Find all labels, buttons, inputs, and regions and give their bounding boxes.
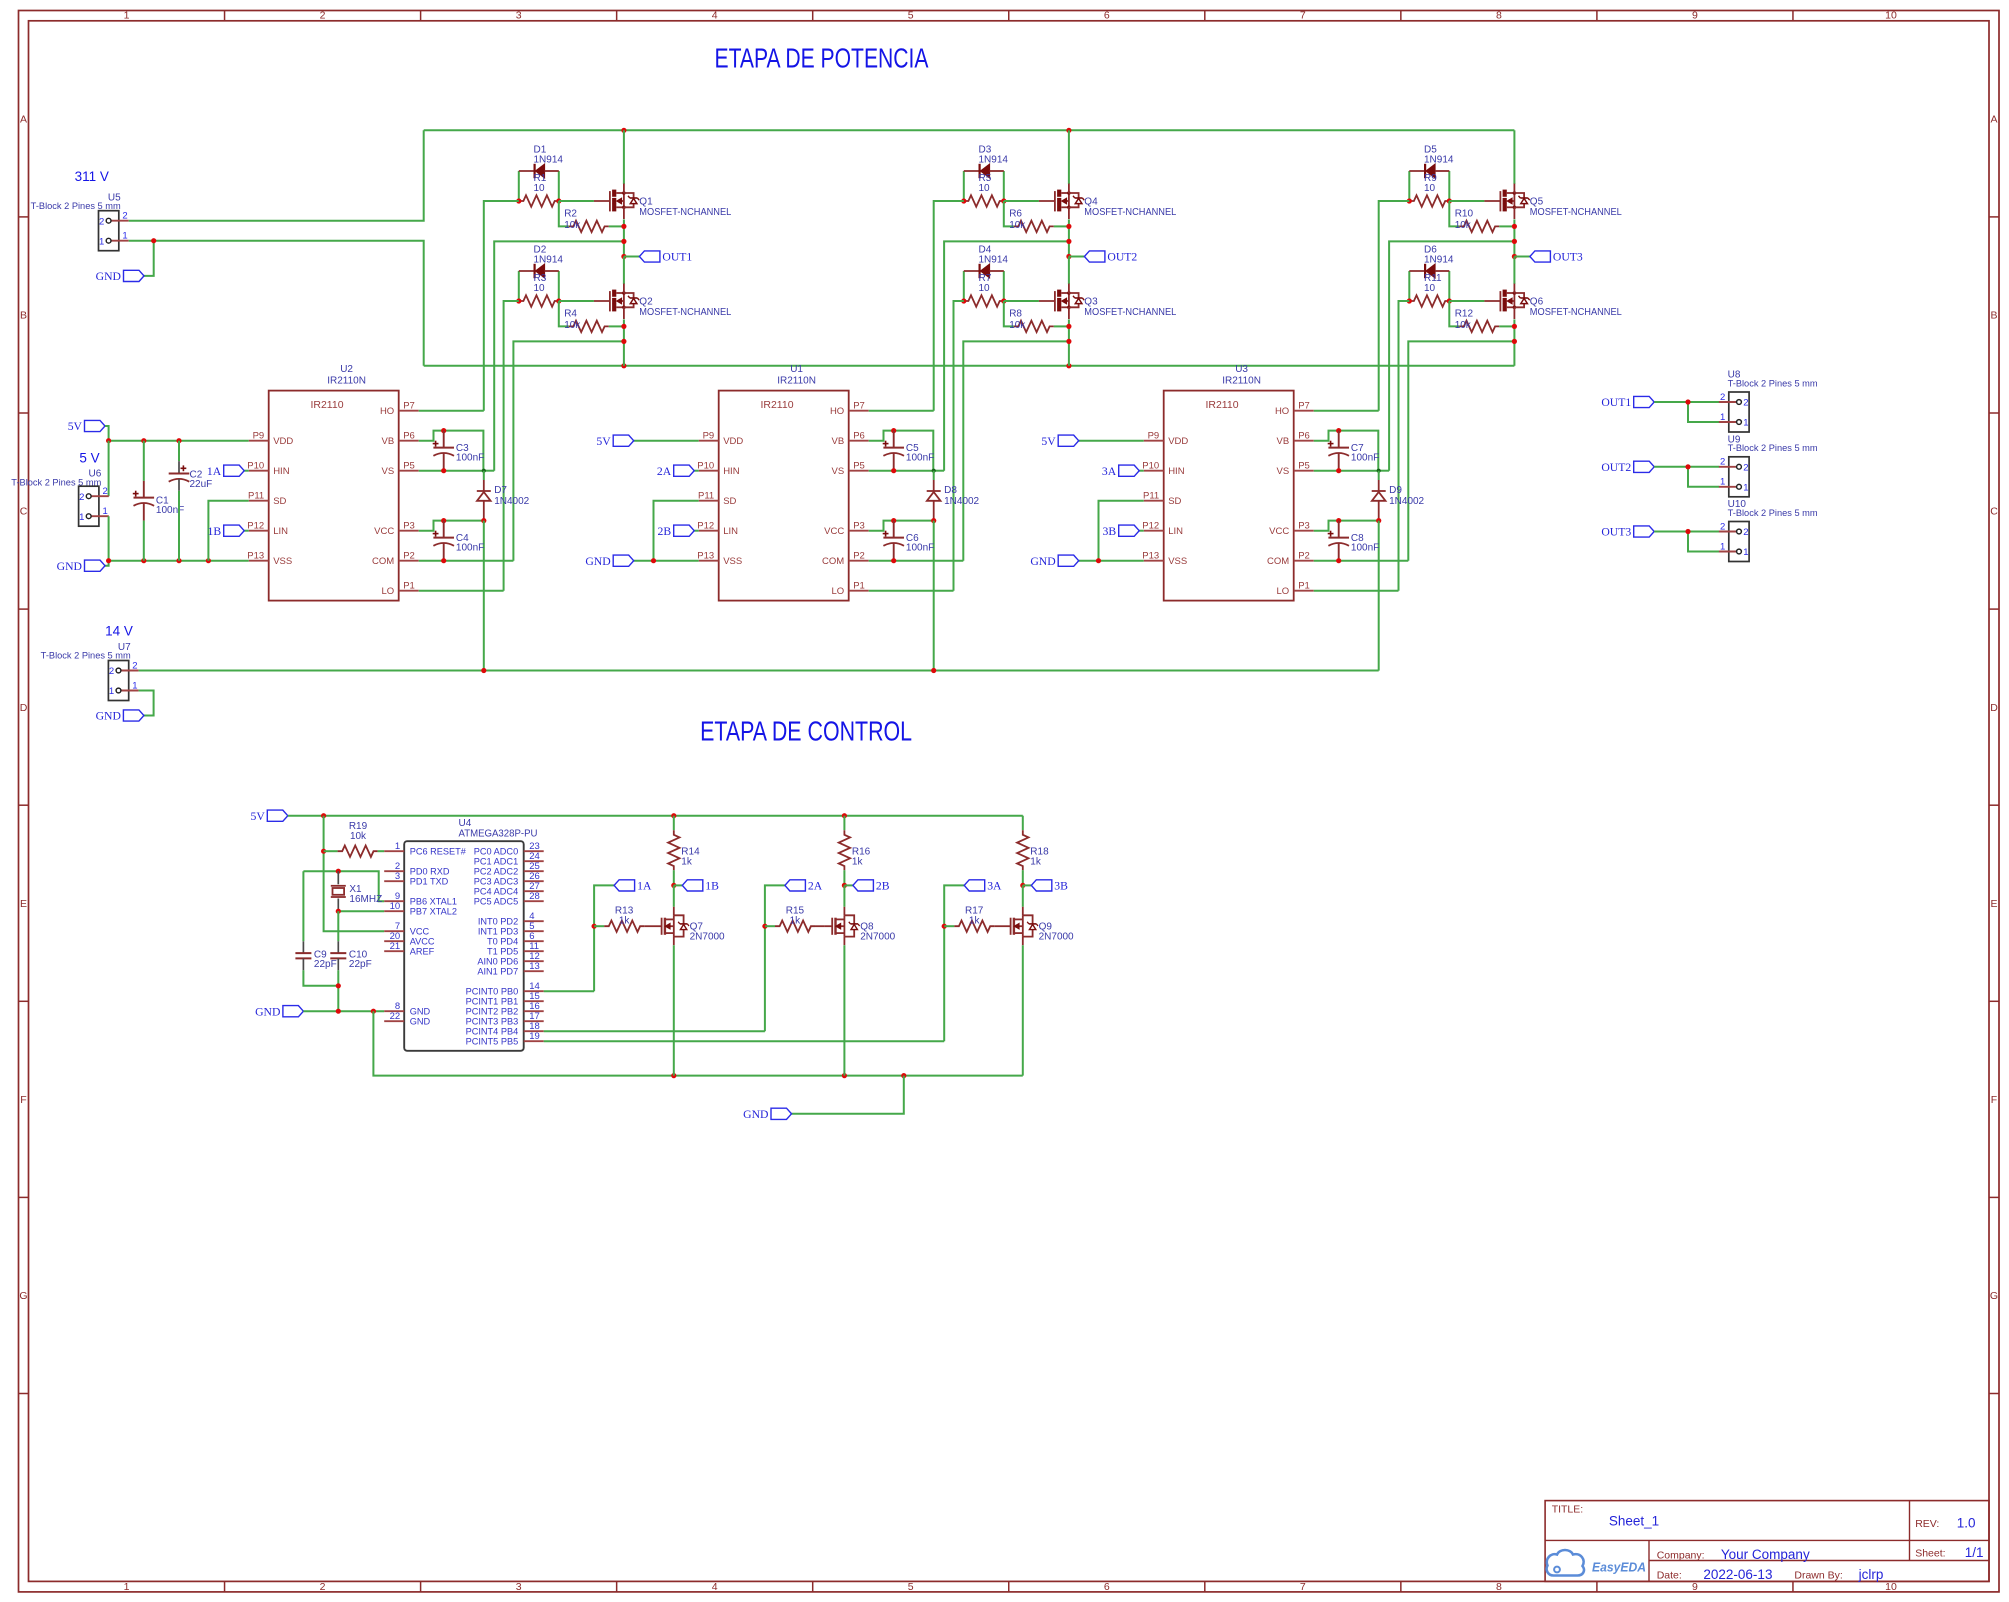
svg-text:2: 2 — [1743, 398, 1748, 409]
svg-text:Company:: Company: — [1657, 1549, 1705, 1561]
svg-text:OUT1: OUT1 — [662, 251, 692, 264]
svg-text:PCINT5 PB5: PCINT5 PB5 — [466, 1037, 519, 1047]
svg-text:IR2110: IR2110 — [1205, 399, 1238, 411]
IC U2 IR2110N — [247, 364, 418, 600]
svg-text:HIN: HIN — [723, 466, 740, 477]
net flag OUT2 (output) — [1601, 461, 1654, 474]
svg-text:A: A — [1990, 113, 1997, 125]
junction R12 right — [1512, 324, 1517, 329]
svg-text:IR2110N: IR2110N — [1222, 376, 1261, 387]
wire U3 VCC to C8 — [1314, 521, 1339, 531]
junction VS / bootstrap diode — [482, 469, 486, 473]
junction C5 bottom — [891, 468, 896, 473]
svg-text:VDD: VDD — [1168, 436, 1188, 447]
junction COM wire — [621, 339, 626, 344]
wire 14V rail — [139, 670, 1379, 672]
wire U6 pin1 to GND — [105, 516, 109, 566]
wire U2 VB to C3 — [419, 431, 444, 441]
svg-text:LIN: LIN — [1168, 526, 1183, 537]
svg-text:GND: GND — [57, 560, 82, 573]
transistor Q9 2N7000 — [1003, 907, 1075, 945]
junction C8 bottom — [1336, 558, 1341, 563]
resistor R19 10k — [324, 821, 385, 857]
svg-text:B: B — [20, 310, 27, 322]
svg-text:1: 1 — [79, 512, 84, 523]
svg-text:2: 2 — [122, 211, 127, 222]
svg-text:2: 2 — [79, 492, 84, 503]
title block — [1545, 1501, 1989, 1582]
transistor Q5 MOSFET-NCHANNEL — [1484, 184, 1622, 219]
resistor R7 10 — [964, 273, 1004, 307]
ground flag GND (control left) — [255, 1005, 303, 1018]
diode D7 1N4002 bootstrap — [477, 471, 530, 521]
junction SD/VSS (U3) — [1096, 558, 1101, 563]
svg-text:14 V: 14 V — [105, 623, 133, 638]
svg-text:GND: GND — [410, 1017, 431, 1027]
wire U1 LO row — [869, 590, 954, 592]
junction R1 left — [516, 198, 521, 203]
junction C1 bottom — [141, 558, 146, 563]
net flag 2A — [765, 880, 823, 1032]
svg-text:100nF: 100nF — [906, 453, 934, 464]
wire Q1 source to R2 — [623, 219, 625, 256]
svg-text:5 V: 5 V — [79, 450, 99, 465]
svg-text:22uF: 22uF — [190, 479, 213, 490]
svg-text:INT0 PD2: INT0 PD2 — [478, 917, 518, 927]
diode D8 1N4002 bootstrap — [927, 471, 980, 521]
diode D5 1N914 — [1409, 145, 1454, 179]
junction C7 bottom — [1336, 468, 1341, 473]
wire VCC down to 14V rail — [483, 521, 485, 671]
svg-text:P7: P7 — [853, 400, 865, 411]
svg-text:1N914: 1N914 — [1424, 155, 1454, 166]
svg-text:OUT3: OUT3 — [1601, 526, 1631, 539]
junction C7 top — [1336, 428, 1341, 433]
svg-text:1N4002: 1N4002 — [944, 496, 979, 507]
IC U1 IR2110N — [697, 364, 868, 600]
svg-text:LIN: LIN — [273, 526, 288, 537]
ground flag GND (U2 cluster) — [57, 560, 105, 573]
svg-text:LIN: LIN — [723, 526, 738, 537]
wire U1 VCC to C6 — [869, 521, 894, 531]
transistor Q4 MOSFET-NCHANNEL — [1039, 184, 1177, 219]
junction R7 right — [1001, 298, 1006, 303]
svg-text:1N914: 1N914 — [979, 255, 1009, 266]
IC U4 ATMEGA328P-PU — [384, 818, 544, 1051]
svg-text:10k: 10k — [1009, 320, 1026, 331]
svg-text:C: C — [1990, 506, 1998, 518]
junction VCC / diode anode — [1376, 518, 1381, 523]
wire U1 COM row — [869, 560, 964, 562]
wire Q2 drain — [623, 257, 625, 285]
svg-text:INT1 PD3: INT1 PD3 — [478, 927, 518, 937]
junction C8 top — [1336, 518, 1341, 523]
wire COM return — [963, 341, 1069, 560]
svg-text:ETAPA DE CONTROL: ETAPA DE CONTROL — [700, 716, 912, 747]
svg-text:OUT1: OUT1 — [1601, 396, 1631, 409]
svg-text:GND: GND — [255, 1005, 280, 1018]
svg-text:VDD: VDD — [723, 436, 743, 447]
svg-text:1: 1 — [1720, 412, 1725, 423]
connector U5 T-Block 2 Pines 5 mm — [31, 192, 129, 250]
net flag 1A to HIN — [207, 465, 249, 478]
wire Q6 source to rail — [1513, 319, 1515, 365]
capacitor C4 100nF — [433, 521, 485, 561]
wire D6 right vertical — [1448, 271, 1450, 301]
wire D3 right vertical — [1003, 171, 1005, 201]
svg-text:1N914: 1N914 — [1424, 255, 1454, 266]
junction SD corner (U2) — [206, 558, 211, 563]
svg-text:100nF: 100nF — [1351, 453, 1379, 464]
svg-text:T-Block 2 Pines 5 mm: T-Block 2 Pines 5 mm — [41, 651, 131, 661]
svg-text:E: E — [1990, 898, 1997, 910]
junction OUT2 — [1685, 464, 1690, 469]
svg-text:U3: U3 — [1235, 364, 1248, 375]
junction R11 left — [1407, 298, 1412, 303]
wire R4 branch — [559, 301, 624, 326]
svg-text:VSS: VSS — [723, 556, 742, 567]
net flag OUT3 (output) — [1601, 526, 1654, 539]
wire GND row to pin8 — [303, 1010, 384, 1012]
junction GND rail / GND flag stub — [901, 1073, 906, 1078]
wire R8 branch — [1004, 301, 1069, 326]
svg-text:100nF: 100nF — [906, 543, 934, 554]
junction GND rail / Q7 — [671, 1073, 676, 1078]
capacitor C9 22pF — [295, 871, 338, 986]
svg-text:SD: SD — [723, 496, 736, 507]
svg-text:PC5 ADC5: PC5 ADC5 — [474, 897, 518, 907]
svg-text:P3: P3 — [403, 520, 415, 531]
svg-text:T-Block 2 Pines 5 mm: T-Block 2 Pines 5 mm — [1728, 508, 1818, 518]
svg-text:10k: 10k — [1455, 220, 1472, 231]
junction R15 left — [762, 924, 767, 929]
junction VS / bootstrap diode — [1377, 469, 1381, 473]
junction bottom rail / section2 — [1066, 363, 1071, 368]
svg-text:Date:: Date: — [1657, 1569, 1682, 1581]
wire source bottom rail — [424, 365, 1515, 367]
svg-text:C: C — [20, 506, 28, 518]
wire OUT1 to U8 pin2 — [1654, 401, 1719, 403]
svg-text:2N7000: 2N7000 — [1039, 932, 1074, 943]
svg-text:R8: R8 — [1009, 309, 1022, 320]
wire U2 COM row — [419, 560, 514, 562]
junction VS / bootstrap diode — [932, 469, 936, 473]
svg-text:1: 1 — [1743, 547, 1748, 558]
connector U9 T-Block 2 Pines 5 mm — [1719, 435, 1818, 497]
wire D1 left vertical — [518, 171, 520, 201]
junction R19 left — [321, 849, 326, 854]
svg-text:VDD: VDD — [273, 436, 293, 447]
svg-text:B: B — [1990, 310, 1997, 322]
svg-text:P11: P11 — [248, 490, 264, 501]
wire R5 to Q4 gate — [1004, 200, 1039, 202]
svg-text:7: 7 — [1300, 1581, 1306, 1593]
svg-text:PC4 ADC4: PC4 ADC4 — [474, 887, 518, 897]
svg-text:1: 1 — [1720, 477, 1725, 488]
wire Q9 source to GND rail — [1022, 945, 1024, 1075]
svg-text:PC3 ADC3: PC3 ADC3 — [474, 877, 518, 887]
wire COM return — [1408, 341, 1514, 560]
resistor R12 10k — [1455, 309, 1500, 333]
wire SD to VSS (U3) — [1099, 501, 1144, 561]
svg-text:P11: P11 — [1143, 490, 1159, 501]
svg-text:2: 2 — [132, 660, 137, 671]
wire HO riser to R1 — [484, 201, 519, 411]
svg-text:1.0: 1.0 — [1957, 1516, 1976, 1531]
svg-text:1B: 1B — [705, 880, 719, 893]
svg-text:9: 9 — [1692, 9, 1698, 21]
svg-text:28: 28 — [529, 891, 540, 902]
resistor R10 10k — [1455, 209, 1500, 233]
junction 5V/R19 column — [321, 813, 326, 818]
svg-text:2N7000: 2N7000 — [690, 932, 725, 943]
wire crystal top row — [303, 871, 384, 901]
svg-text:PD1 TXD: PD1 TXD — [410, 877, 449, 887]
junction R9 left — [1407, 198, 1412, 203]
svg-text:3B: 3B — [1103, 525, 1117, 538]
svg-text:1: 1 — [109, 686, 114, 697]
svg-text:ETAPA DE POTENCIA: ETAPA DE POTENCIA — [715, 42, 929, 73]
svg-text:13: 13 — [529, 961, 540, 972]
svg-text:10k: 10k — [1009, 220, 1026, 231]
svg-text:10: 10 — [534, 183, 546, 194]
wire D2 right vertical — [558, 271, 560, 301]
svg-text:VB: VB — [382, 436, 395, 447]
svg-text:16MHZ: 16MHZ — [349, 894, 382, 905]
wire U2 HO to riser — [419, 410, 484, 412]
svg-text:SD: SD — [273, 496, 286, 507]
wire VS return — [944, 241, 1069, 470]
junction C6 bottom — [891, 558, 896, 563]
wire VB node over C7 — [1339, 431, 1379, 471]
junction node OUT2 — [1066, 254, 1071, 259]
power flag 5V (U3) — [1041, 435, 1143, 448]
svg-text:100nF: 100nF — [456, 543, 484, 554]
svg-text:T-Block 2 Pines 5 mm: T-Block 2 Pines 5 mm — [1728, 378, 1818, 388]
svg-text:SD: SD — [1168, 496, 1181, 507]
label 311 V — [75, 169, 109, 184]
svg-text:P2: P2 — [1298, 550, 1310, 561]
svg-text:MOSFET-NCHANNEL: MOSFET-NCHANNEL — [1084, 207, 1176, 218]
resistor R2 10k — [564, 209, 609, 233]
svg-text:1k: 1k — [681, 856, 693, 867]
svg-text:AIN1 PD7: AIN1 PD7 — [477, 967, 518, 977]
wire VSS row (U3) — [1079, 560, 1144, 562]
svg-text:2N7000: 2N7000 — [860, 932, 895, 943]
svg-text:10: 10 — [534, 283, 546, 294]
net flag OUT1 — [639, 251, 692, 264]
svg-text:F: F — [1991, 1094, 1997, 1106]
connector U7 T-Block 2 Pines 5 mm — [41, 642, 139, 701]
wire HO riser to R9 — [1379, 201, 1410, 411]
svg-text:1N4002: 1N4002 — [494, 496, 529, 507]
svg-text:VS: VS — [832, 466, 845, 477]
ground flag GND (U7) — [96, 710, 144, 723]
diode D1 1N914 — [519, 145, 564, 179]
svg-text:PCINT2 PB2: PCINT2 PB2 — [466, 1007, 519, 1017]
junction GND rail / Q8 — [842, 1073, 847, 1078]
resistor R3 10 — [519, 273, 559, 307]
junction 1B node — [671, 883, 676, 888]
svg-text:1A: 1A — [207, 465, 222, 478]
svg-text:P9: P9 — [1148, 430, 1160, 441]
svg-text:2A: 2A — [808, 880, 823, 893]
svg-text:VCC: VCC — [410, 927, 430, 937]
svg-text:2022-06-13: 2022-06-13 — [1703, 1567, 1772, 1582]
svg-text:P5: P5 — [853, 460, 865, 471]
svg-text:7: 7 — [1300, 9, 1306, 21]
wire OUT3 to U10 pin1 — [1688, 532, 1719, 552]
svg-text:5V: 5V — [1041, 435, 1056, 448]
svg-text:1: 1 — [132, 680, 137, 691]
resistor R11 10 — [1409, 273, 1449, 307]
wire VB node over C5 — [894, 431, 934, 471]
svg-text:IR2110: IR2110 — [310, 399, 343, 411]
junction node OUT1 — [621, 254, 626, 259]
svg-text:ATMEGA328P-PU: ATMEGA328P-PU — [459, 829, 538, 840]
svg-text:T0 PD4: T0 PD4 — [487, 937, 518, 947]
wire U3 LO row — [1314, 590, 1399, 592]
resistor R15 1k — [765, 906, 824, 932]
capacitor C1 100nF — [133, 441, 184, 561]
wire 5V down to VCC pin7 — [324, 816, 385, 932]
svg-text:U4: U4 — [459, 818, 472, 829]
svg-text:P13: P13 — [247, 550, 264, 561]
junction 5V/R14 — [671, 813, 676, 818]
svg-text:1: 1 — [122, 231, 127, 242]
svg-text:10: 10 — [1885, 9, 1897, 21]
svg-text:3A: 3A — [987, 880, 1002, 893]
junction node OUT3 — [1512, 254, 1517, 259]
svg-text:10k: 10k — [350, 831, 367, 842]
wire U2 VCC to C4 — [419, 521, 444, 531]
wire R6 branch — [1004, 201, 1069, 226]
wire 311V rail — [424, 129, 1515, 131]
wire 5V to VDD rail — [105, 426, 109, 441]
wire Q4 source to R6 — [1068, 219, 1070, 256]
svg-text:10k: 10k — [1455, 320, 1472, 331]
junction C9/C10 bottom — [336, 983, 341, 988]
junction C3 bottom — [441, 468, 446, 473]
svg-text:GND: GND — [96, 270, 121, 283]
svg-text:3A: 3A — [1102, 465, 1117, 478]
wire SD to VSS (U2) — [208, 501, 248, 561]
junction X1 bottom / C10 — [336, 909, 341, 914]
diode D3 1N914 — [964, 145, 1009, 179]
junction C3 top — [441, 428, 446, 433]
junction 311V rail / Q1 drain — [621, 128, 626, 133]
junction R7 left — [961, 298, 966, 303]
svg-text:P6: P6 — [1298, 430, 1310, 441]
svg-text:COM: COM — [1267, 556, 1289, 567]
wire R9 to Q5 gate — [1449, 200, 1484, 202]
wire U3 VS row — [1314, 470, 1389, 472]
svg-text:2B: 2B — [658, 525, 672, 538]
net flag 3A — [944, 880, 1002, 1042]
svg-text:VCC: VCC — [824, 526, 844, 537]
connector U10 T-Block 2 Pines 5 mm — [1719, 499, 1818, 561]
svg-text:P3: P3 — [853, 520, 865, 531]
junction R17 left — [942, 924, 947, 929]
resistor R14 1k pullup — [668, 816, 700, 886]
svg-text:2: 2 — [99, 216, 104, 227]
junction GND rail branch — [371, 1009, 376, 1014]
resistor R1 10 — [519, 173, 559, 207]
capacitor C5 100nF — [883, 431, 935, 471]
svg-text:OUT3: OUT3 — [1553, 251, 1583, 264]
svg-text:P7: P7 — [1298, 400, 1310, 411]
transistor Q1 MOSFET-NCHANNEL — [594, 184, 732, 219]
net flag 1A — [594, 880, 652, 992]
svg-text:R2: R2 — [564, 209, 577, 220]
junction C1 top — [141, 438, 146, 443]
svg-text:1A: 1A — [637, 880, 652, 893]
svg-text:PC2 ADC2: PC2 ADC2 — [474, 867, 518, 877]
net flag 3B to LIN — [1103, 525, 1144, 538]
svg-text:R12: R12 — [1455, 309, 1474, 320]
wire HO riser to R5 — [934, 201, 964, 411]
wire LO riser to R11 — [1399, 301, 1410, 591]
transistor Q6 MOSFET-NCHANNEL — [1484, 284, 1622, 319]
wire OUT1 to U8 pin1 — [1688, 402, 1719, 422]
wire D5 right vertical — [1448, 171, 1450, 201]
svg-text:PB7 XTAL2: PB7 XTAL2 — [410, 907, 457, 917]
svg-text:Sheet_1: Sheet_1 — [1609, 1514, 1659, 1529]
svg-text:P10: P10 — [697, 460, 714, 471]
svg-text:1B: 1B — [208, 525, 222, 538]
wire VDD rail (U2) — [109, 440, 249, 442]
svg-text:4: 4 — [712, 1581, 718, 1593]
svg-text:GND: GND — [96, 710, 121, 723]
svg-text:1k: 1k — [969, 916, 981, 927]
wire 1A to U4 — [544, 990, 594, 992]
junction R3 left — [516, 298, 521, 303]
wire VS return — [1389, 241, 1514, 470]
svg-text:2: 2 — [1743, 527, 1748, 538]
svg-text:VCC: VCC — [1269, 526, 1289, 537]
ground flag GND (control bottom) — [743, 1108, 791, 1121]
svg-text:P1: P1 — [853, 580, 865, 591]
wire Q3 source to rail — [1068, 319, 1070, 365]
svg-text:COM: COM — [372, 556, 394, 567]
svg-text:HIN: HIN — [1168, 466, 1185, 477]
wire LO riser to R7 — [954, 301, 964, 591]
junction COM wire — [1066, 339, 1071, 344]
net flag 1B to LIN — [208, 525, 249, 538]
svg-text:PCINT1 PB1: PCINT1 PB1 — [466, 997, 519, 1007]
svg-text:10: 10 — [979, 183, 991, 194]
wire GND flag stub (control bottom) — [792, 1076, 904, 1114]
capacitor C3 100nF — [433, 431, 485, 471]
svg-text:2A: 2A — [657, 465, 672, 478]
svg-text:100nF: 100nF — [156, 505, 184, 516]
wire Q8 drain — [843, 885, 845, 906]
svg-text:1: 1 — [1743, 418, 1748, 429]
svg-text:IR2110N: IR2110N — [327, 376, 366, 387]
wire XTAL2 to X1 — [338, 910, 384, 912]
svg-text:2: 2 — [320, 1581, 326, 1593]
svg-text:D: D — [20, 702, 28, 714]
junction R3 right — [556, 298, 561, 303]
svg-text:GND: GND — [410, 1007, 431, 1017]
svg-text:19: 19 — [529, 1031, 540, 1042]
svg-text:PC6 RESET#: PC6 RESET# — [410, 847, 467, 857]
svg-text:5: 5 — [908, 1581, 914, 1593]
svg-text:D9: D9 — [1389, 485, 1402, 496]
svg-text:9: 9 — [1692, 1581, 1698, 1593]
svg-text:2: 2 — [102, 486, 107, 497]
junction 311V rail / Q4 drain — [1066, 128, 1071, 133]
